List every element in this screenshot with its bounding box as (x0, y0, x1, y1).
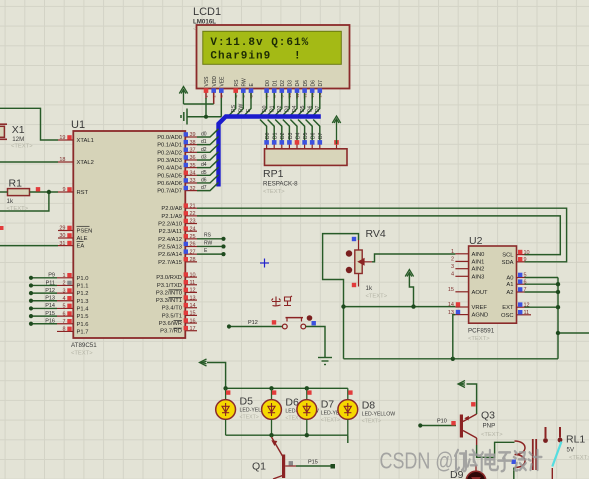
svg-text:P0.7/AD7: P0.7/AD7 (157, 189, 182, 195)
LCD display LCD1 LM016L (193, 6, 350, 89)
svg-text:D6: D6 (310, 80, 316, 87)
wire RV4 loop (top terminal to ground rail) (323, 234, 359, 359)
svg-text:16: 16 (190, 318, 196, 324)
svg-text:1k: 1k (366, 285, 373, 292)
U1 left pin state indicators (67, 135, 71, 331)
svg-text:X1: X1 (12, 124, 25, 136)
LED D8 LED-YELLOW (338, 400, 395, 425)
svg-text:13: 13 (190, 295, 196, 301)
wire RST branch down to left edge (0, 192, 49, 211)
svg-text:A1: A1 (506, 282, 513, 288)
svg-text:D6: D6 (311, 132, 317, 139)
svg-text:P10: P10 (437, 419, 447, 425)
svg-text:RW: RW (242, 78, 248, 87)
svg-text:LCD1: LCD1 (193, 6, 221, 18)
svg-text:<TEXT>: <TEXT> (71, 351, 93, 357)
wire bus entries from LCD D0-D7 pins (260, 93, 320, 115)
svg-text:<TEXT>: <TEXT> (263, 189, 285, 195)
junction VREF/loop (341, 304, 345, 308)
svg-text:SDA: SDA (502, 260, 514, 266)
wire P2.1 to U2 SCL (197, 216, 560, 255)
svg-text:D8: D8 (362, 400, 376, 412)
potentiometer RV4 1k (355, 228, 388, 300)
svg-text:P13: P13 (45, 296, 55, 302)
svg-text:<TEXT>: <TEXT> (468, 336, 490, 342)
svg-text:RESPACK-8: RESPACK-8 (263, 181, 298, 188)
svg-text:RV4: RV4 (366, 228, 386, 240)
svg-text:23: 23 (190, 219, 196, 225)
junction VSS/ground (204, 115, 208, 119)
svg-text:P15: P15 (45, 311, 55, 317)
svg-text:D4: D4 (295, 80, 301, 87)
svg-text:d2: d2 (201, 147, 207, 153)
net labels D0-D7 (rotated, above RP1) (265, 132, 324, 139)
LCD1 pin stubs and pin numbers (204, 89, 323, 99)
svg-text:25: 25 (190, 234, 196, 240)
svg-text:33: 33 (190, 178, 196, 184)
svg-text:31: 31 (59, 241, 65, 247)
wire crystal to XTAL2 (0, 161, 58, 163)
wire RV4 wiper to U2 AIN0 (372, 254, 455, 262)
U1 left pin numbers (59, 135, 65, 332)
svg-text:Char9in9 !: Char9in9 ! (210, 51, 301, 63)
svg-text:P3.7/RD: P3.7/RD (160, 329, 182, 335)
net label P12 wire to button (227, 320, 282, 329)
svg-text:P0.4/AD4: P0.4/AD4 (157, 166, 183, 172)
svg-text:<TEXT>: <TEXT> (11, 144, 33, 150)
net labels d0-d7 at P0 port (201, 132, 207, 192)
svg-text:RP1: RP1 (263, 168, 284, 180)
wires P0.0-P0.7 to bus (197, 129, 219, 191)
label 光敏 (photo-sensitive) (272, 296, 293, 306)
svg-text:VEE: VEE (220, 76, 226, 87)
wire U2 A2 to ground net (525, 291, 559, 293)
svg-text:P0.2/AD2: P0.2/AD2 (157, 150, 182, 156)
svg-text:15: 15 (190, 311, 196, 317)
svg-text:R1: R1 (9, 178, 23, 190)
svg-text:P1.5: P1.5 (77, 314, 89, 320)
svg-text:D7: D7 (315, 105, 321, 112)
svg-text:5V: 5V (567, 447, 575, 454)
RP1 pin state indicators (264, 140, 339, 145)
U2 pin stubs (455, 254, 531, 315)
svg-text:1: 1 (451, 249, 454, 255)
svg-text:4: 4 (451, 272, 454, 278)
net labels D0-D7 (rotated, above bus) (262, 105, 321, 112)
U1 right pin stubs (185, 137, 197, 331)
svg-text:d3: d3 (201, 154, 207, 160)
svg-text:A2: A2 (506, 290, 513, 296)
push button (light sensor 光敏) (282, 315, 312, 329)
svg-text:PNP: PNP (483, 423, 496, 430)
svg-text:P1.2: P1.2 (77, 291, 89, 297)
svg-text:P1.6: P1.6 (77, 322, 89, 328)
bus (blue) LCD data to P0 port (219, 117, 321, 187)
svg-text:4: 4 (62, 296, 65, 302)
svg-text:38: 38 (190, 140, 196, 146)
svg-text:D3: D3 (288, 132, 294, 139)
svg-text:P1.7: P1.7 (77, 329, 89, 335)
svg-text:AOUT: AOUT (472, 290, 489, 296)
svg-text:<TEXT>: <TEXT> (569, 455, 589, 461)
net labels RS RW E (rotated, at LCD) (231, 103, 252, 112)
svg-text:3: 3 (62, 288, 65, 294)
wire LED bottoms rail (226, 434, 348, 436)
svg-text:32: 32 (190, 186, 196, 192)
svg-text:12M: 12M (12, 136, 24, 143)
svg-text:D1: D1 (269, 105, 275, 112)
svg-text:d5: d5 (201, 170, 207, 176)
svg-text:P15: P15 (308, 460, 318, 466)
svg-text:3: 3 (451, 264, 454, 270)
svg-text:<TEXT>: <TEXT> (366, 294, 388, 300)
svg-text:U1: U1 (71, 119, 85, 131)
watermark CSDN (380, 448, 542, 474)
svg-text:P3.3/INT1: P3.3/INT1 (156, 298, 182, 304)
svg-text:RST: RST (77, 190, 89, 196)
svg-text:P2.7/A15: P2.7/A15 (158, 260, 182, 266)
svg-text:CSDN @: CSDN @ (380, 448, 454, 474)
svg-text:D3: D3 (285, 105, 291, 112)
svg-text:D2: D2 (280, 80, 286, 87)
U2 pin numbers (448, 249, 530, 316)
svg-text:AIN0: AIN0 (472, 252, 485, 258)
svg-text:AGND: AGND (472, 313, 489, 319)
resistor pack RP1 RESPACK-8 (263, 145, 347, 195)
junctions LED top rail (223, 386, 227, 390)
svg-text:P1.3: P1.3 (77, 299, 89, 305)
svg-text:D1: D1 (273, 132, 279, 139)
svg-text:D7: D7 (321, 399, 335, 411)
svg-text:14: 14 (448, 302, 454, 308)
svg-text:PCF8591: PCF8591 (468, 328, 495, 335)
svg-text:P16: P16 (45, 319, 55, 325)
wire stub left edge (0, 226, 4, 230)
svg-text:26: 26 (190, 242, 196, 248)
junction VCC/VREF rail (411, 304, 415, 308)
svg-text:P2.5/A13: P2.5/A13 (158, 245, 182, 251)
svg-text:XTAL1: XTAL1 (77, 138, 94, 144)
svg-text:D2: D2 (280, 132, 286, 139)
junctions LED bottom rail (269, 433, 273, 437)
svg-text:14: 14 (190, 303, 196, 309)
svg-text:RW: RW (204, 240, 213, 246)
transistor Q3 PNP (460, 410, 503, 446)
svg-text:EXT: EXT (502, 305, 514, 311)
wire U2 A1 to ground net (525, 283, 559, 285)
state indicators at Q3 (451, 421, 455, 425)
svg-text:<TEXT>: <TEXT> (321, 418, 340, 424)
svg-text:P3.4/T0: P3.4/T0 (162, 306, 182, 312)
svg-text:P2.0/A8: P2.0/A8 (161, 206, 182, 212)
svg-text:P11: P11 (46, 280, 55, 286)
svg-text:d7: d7 (201, 185, 207, 191)
wire crystal to XTAL1 (0, 108, 58, 140)
svg-text:35: 35 (190, 163, 196, 169)
svg-text:P1.1: P1.1 (77, 283, 89, 289)
svg-text:RW: RW (239, 103, 245, 112)
wire LED tops rail (226, 387, 348, 389)
svg-text:30: 30 (59, 233, 65, 239)
node marker (blue cross) (260, 259, 269, 268)
svg-text:RS: RS (204, 233, 212, 239)
svg-text:VREF: VREF (472, 305, 488, 311)
svg-text:P12: P12 (248, 320, 258, 326)
wire U2 A0 to ground net (525, 277, 559, 279)
svg-text:P2.4/A12: P2.4/A12 (158, 237, 182, 243)
svg-text:P1.0: P1.0 (77, 276, 89, 282)
svg-text:PSEN: PSEN (77, 229, 93, 235)
svg-text:P0.5/AD5: P0.5/AD5 (157, 173, 182, 179)
svg-text:P0.3/AD3: P0.3/AD3 (157, 158, 182, 164)
transistor Q1 (PNP) (252, 435, 285, 479)
svg-text:D2: D2 (277, 105, 283, 112)
svg-text:2: 2 (451, 257, 454, 263)
svg-text:P3.6/WR: P3.6/WR (159, 321, 182, 327)
RV4 state indicators (352, 237, 356, 241)
svg-text:D0: D0 (265, 132, 271, 139)
svg-text:d4: d4 (201, 162, 207, 168)
svg-text:2: 2 (62, 281, 65, 287)
net label P10 wire to Q3 base (418, 419, 456, 428)
wire Q3 collector to relay coil (477, 442, 515, 457)
svg-text:P12: P12 (45, 288, 55, 294)
wires LED top stubs with state squares (226, 388, 353, 399)
svg-text:13: 13 (448, 310, 454, 316)
svg-text:D1: D1 (272, 80, 278, 87)
svg-text:D3: D3 (288, 80, 294, 87)
LED D6 LED-YELLOW (262, 397, 319, 422)
svg-text:28: 28 (190, 257, 196, 263)
svg-text:P0.1/AD1: P0.1/AD1 (157, 143, 182, 149)
U1 left pin stubs (57, 140, 73, 331)
svg-text:29: 29 (59, 226, 65, 232)
svg-text:P2.1/A9: P2.1/A9 (161, 214, 182, 220)
svg-text:SCL: SCL (502, 253, 514, 259)
svg-text:d0: d0 (201, 132, 207, 138)
svg-text:U2: U2 (469, 235, 483, 247)
svg-text:36: 36 (190, 155, 196, 161)
power VCC arrow (U2 VREF) (405, 270, 413, 277)
svg-text:EA: EA (77, 244, 85, 250)
svg-text:22: 22 (190, 211, 196, 217)
wire stub below LED rail at D8 (347, 435, 349, 443)
state indicator relay coil (512, 460, 516, 464)
wire bus entries from LCD RS RW E pins (229, 93, 251, 115)
wire button to ground (306, 327, 325, 358)
wire left edge to R1 (0, 191, 8, 193)
svg-text:10: 10 (190, 272, 196, 278)
svg-text:D4: D4 (295, 132, 301, 139)
resistor R1 1k (7, 178, 30, 213)
svg-text:P0.6/AD6: P0.6/AD6 (157, 181, 182, 187)
state indicators at button (272, 320, 276, 324)
svg-text:<TEXT>: <TEXT> (240, 415, 259, 421)
svg-text:D7: D7 (318, 132, 324, 139)
svg-text:D4: D4 (292, 105, 298, 112)
crystal X1 12MHz (0, 124, 33, 150)
LCD1 pin state indicators (204, 88, 322, 93)
wire LCD VSS to ground (205, 98, 207, 117)
LED D7 LED-YELLOW (297, 399, 354, 424)
svg-text:V:11.8v Q:61%: V:11.8v Q:61% (210, 37, 309, 49)
wire U2 AGND to rail (453, 315, 456, 359)
svg-text:18: 18 (59, 157, 65, 163)
wires P1.0-P1.6 port (29, 276, 57, 326)
wires LED bottom stubs (226, 419, 348, 435)
svg-text:AIN2: AIN2 (472, 267, 485, 273)
power VCC arrow (RP1 common) (332, 116, 340, 144)
svg-text:VSS: VSS (204, 76, 210, 87)
wire ground rail (344, 358, 559, 360)
svg-text:<TEXT>: <TEXT> (481, 432, 503, 438)
svg-text:P3.0/RXD: P3.0/RXD (156, 275, 182, 281)
LED D9 (450, 465, 486, 479)
svg-text:<TEXT>: <TEXT> (362, 419, 381, 425)
wire EA to left edge (0, 245, 58, 247)
svg-text:34: 34 (190, 171, 196, 177)
svg-text:P2.3/A11: P2.3/A11 (159, 229, 182, 235)
U2 pin state indicators (456, 250, 523, 315)
svg-text:1: 1 (62, 273, 65, 279)
ground (LCD VSS/VEE, rotated) (181, 109, 221, 125)
svg-text:P1.4: P1.4 (77, 306, 90, 312)
svg-text:Q1: Q1 (252, 461, 266, 473)
U1 right pin labels (156, 135, 183, 335)
junctions on address ground net (556, 282, 560, 286)
svg-text:D5: D5 (300, 105, 306, 112)
svg-text:A0: A0 (506, 276, 513, 282)
svg-text:D0: D0 (265, 80, 271, 87)
svg-text:Q3: Q3 (481, 410, 495, 422)
wire Q3 emitter to arrow terminal (467, 384, 477, 414)
svg-text:D0: D0 (262, 105, 268, 112)
svg-text:39: 39 (190, 132, 196, 138)
svg-text:11: 11 (190, 280, 196, 286)
svg-text:12: 12 (190, 288, 196, 294)
svg-text:RL1: RL1 (566, 434, 585, 446)
wires P2.4-P2.6 with net labels RS RW E (197, 233, 226, 257)
svg-text:37: 37 (190, 148, 196, 154)
svg-text:D5: D5 (303, 132, 309, 139)
svg-text:19: 19 (59, 135, 65, 141)
wire arrow to D5 top (207, 363, 226, 389)
svg-text:P3.2/INT0: P3.2/INT0 (156, 290, 182, 296)
junction dots at RV4 terminals (346, 250, 352, 256)
svg-text:RS: RS (234, 79, 240, 87)
svg-text:P14: P14 (45, 303, 55, 309)
svg-text:6: 6 (62, 311, 65, 317)
svg-text:7: 7 (62, 319, 65, 325)
svg-text:LED-YELLOW: LED-YELLOW (362, 412, 396, 418)
svg-text:AIN1: AIN1 (472, 259, 485, 265)
svg-text:P3.1/TXD: P3.1/TXD (157, 283, 182, 289)
wire relay coil bottom (513, 468, 515, 479)
state indicator Q1 base (289, 461, 293, 465)
svg-text:P2.6/A14: P2.6/A14 (158, 252, 183, 258)
svg-text:D7: D7 (318, 80, 324, 87)
U1 right pin numbers (190, 132, 196, 332)
U2 pin labels (472, 252, 515, 319)
wire rail branch to right edge (558, 332, 589, 334)
svg-text:11: 11 (524, 310, 530, 316)
junction RST branch (47, 190, 51, 194)
U1 right pin state indicators (184, 132, 188, 330)
svg-text:VDD: VDD (212, 76, 218, 87)
state indicator on RST wire (36, 187, 40, 191)
power VCC arrow (LCD VDD) (179, 87, 187, 105)
junction rail branches (556, 331, 560, 335)
wire P2.0 to U2 SDA (197, 208, 567, 262)
ground (button) (318, 358, 332, 365)
svg-text:d1: d1 (201, 139, 207, 145)
svg-text:AT89C51: AT89C51 (71, 342, 97, 349)
svg-text:P2.2/A10: P2.2/A10 (158, 222, 182, 228)
wire LCD VEE to ground (220, 98, 222, 117)
terminal arrow (LED supply) (200, 359, 207, 366)
svg-text:OSC: OSC (501, 313, 514, 319)
svg-text:D5: D5 (303, 80, 309, 87)
svg-text:15: 15 (448, 287, 454, 293)
svg-text:9: 9 (524, 257, 527, 263)
svg-text:d6: d6 (201, 177, 207, 183)
U1 left pin labels (77, 138, 94, 335)
svg-text:D6: D6 (307, 105, 313, 112)
microcontroller U1 AT89C51 (71, 119, 185, 357)
wire VREF rail (344, 306, 456, 308)
ADC U2 PCF8591 (468, 235, 517, 342)
wire R1 to RST (30, 191, 59, 193)
svg-text:RS: RS (231, 104, 237, 112)
svg-text:P0.0/AD0: P0.0/AD0 (157, 135, 182, 141)
svg-text:XTAL2: XTAL2 (77, 160, 94, 166)
wire rail to U2 address pins (557, 278, 559, 359)
svg-text:10: 10 (524, 250, 530, 256)
svg-text:21: 21 (190, 203, 196, 209)
svg-text:AIN3: AIN3 (472, 274, 485, 280)
wire U2 EXT to ground net (525, 306, 559, 308)
svg-text:D5: D5 (240, 396, 254, 408)
wire Q1 base with net label P15 (285, 460, 335, 469)
svg-text:9: 9 (62, 187, 65, 193)
svg-text:24: 24 (190, 226, 196, 232)
svg-text:P3.5/T1: P3.5/T1 (162, 313, 182, 319)
svg-text:27: 27 (190, 249, 196, 255)
svg-text:1k: 1k (7, 198, 14, 205)
svg-text:8: 8 (62, 327, 65, 333)
LED D5 LED-YELLOW (216, 396, 273, 421)
LCD1 pin names (204, 76, 324, 87)
wire LCD VDD to VCC (213, 93, 215, 105)
terminal arrow (Q3 emitter) (458, 381, 465, 388)
net labels P9 P11-P16 (45, 273, 55, 325)
relay RL1 5V (515, 427, 589, 479)
svg-text:17: 17 (190, 326, 196, 332)
svg-text:P9: P9 (48, 273, 55, 279)
wire bus exits to RP1 pins (260, 120, 320, 145)
svg-text:5: 5 (62, 304, 65, 310)
